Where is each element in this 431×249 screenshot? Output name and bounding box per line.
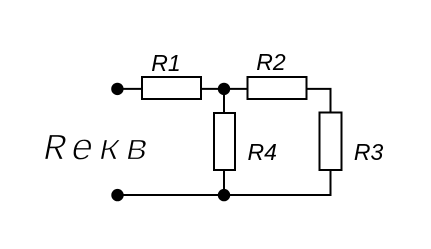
wire: R2 to right corner down to R3 [307,89,331,113]
wire: R3 bottom to bottom rail [330,170,332,196]
svg-text:R2: R2 [256,49,286,75]
wire: bottom rail [118,194,332,196]
wire: R4 bottom to bottom rail [223,170,225,196]
svg-text:R4: R4 [247,139,276,165]
wire: top-left terminal to R1 [117,88,142,90]
resistor R1 [142,77,201,99]
resistor R3 [320,113,342,171]
svg-text:R3: R3 [354,139,384,165]
node A (junction R1/R2/R4) [218,83,230,95]
node: bottom junction R4 [218,189,230,201]
svg-text:R1: R1 [151,50,180,76]
resistor R2 [248,77,307,99]
node: bottom-left terminal [111,189,123,201]
node: top-left terminal [111,83,123,95]
resistor R4 [214,113,235,170]
wire: R1 to R2 through node A [201,88,248,90]
wire: node A down to R4 [223,89,225,113]
